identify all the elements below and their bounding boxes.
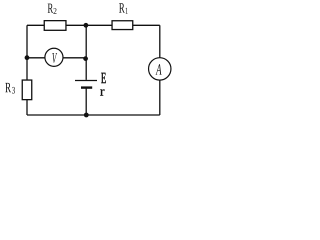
- node junction middle: [83, 56, 88, 61]
- label r: [100, 89, 104, 95]
- wire top rail: [27, 24, 160, 26]
- label A: [156, 64, 162, 74]
- label V: [52, 53, 57, 63]
- resistor R1 body: [112, 21, 133, 30]
- wire right rail: [159, 25, 161, 115]
- resistor R2: [44, 4, 66, 31]
- battery positive plate: [75, 80, 97, 82]
- resistor R3: [5, 80, 31, 100]
- resistor R2 body: [44, 21, 66, 31]
- node junction bottom: [84, 113, 89, 118]
- label E: [101, 73, 106, 83]
- label R3: [5, 83, 11, 92]
- battery cell E,r: [75, 73, 106, 96]
- ammeter body: [149, 58, 171, 80]
- resistor R3 body: [22, 80, 32, 100]
- node junction left: [25, 55, 30, 60]
- wire middle battery branch lower segment: [85, 88, 87, 115]
- wire middle battery branch upper segment: [85, 25, 87, 80]
- voltmeter V: [45, 48, 63, 66]
- battery negative plate: [81, 86, 92, 88]
- ammeter A: [149, 58, 171, 80]
- wire bottom rail: [27, 114, 160, 116]
- label R1: [119, 3, 125, 12]
- voltmeter body: [45, 48, 63, 66]
- node junction top: [84, 23, 89, 28]
- wire left rail: [26, 25, 28, 115]
- wire voltmeter branch: [27, 57, 86, 59]
- resistor R1: [112, 3, 133, 29]
- label R2: [48, 4, 54, 13]
